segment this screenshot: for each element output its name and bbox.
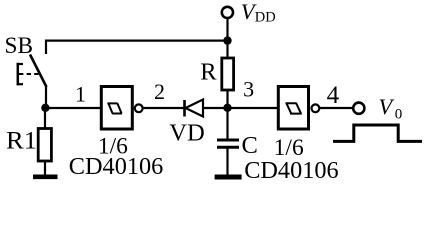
wire node to inverter U1 input xyxy=(46,107,102,109)
svg-text:CD40106: CD40106 xyxy=(69,153,164,180)
wire capacitor bottom to ground xyxy=(226,147,228,176)
wire VDD stem down to resistor R xyxy=(226,19,228,59)
ground under R1 xyxy=(33,175,58,180)
diode VD cathode bar xyxy=(183,100,186,117)
bubble U1 xyxy=(135,104,143,112)
node junction input node xyxy=(41,104,49,112)
svg-text:CD40106: CD40106 xyxy=(244,157,339,184)
wire node down to capacitor xyxy=(226,108,228,140)
switch SB pushbutton actuator xyxy=(17,63,41,86)
output terminal xyxy=(353,103,364,114)
node junction at VDD rail xyxy=(223,36,231,44)
label VDD xyxy=(241,0,276,26)
wire gate1 output to diode xyxy=(143,107,185,109)
ground under C xyxy=(215,175,242,180)
switch SB blade xyxy=(30,55,47,88)
svg-text:SB: SB xyxy=(5,33,34,59)
resistor R1 xyxy=(6,125,51,161)
wire R bottom to node xyxy=(226,90,228,108)
svg-text:0: 0 xyxy=(395,107,403,123)
waveform pulse xyxy=(333,125,422,141)
capacitor C bottom plate xyxy=(217,146,239,149)
svg-text:3: 3 xyxy=(243,76,254,101)
wire gate2 output to terminal xyxy=(319,107,353,109)
wire diode to node 3 xyxy=(203,107,278,109)
svg-text:4: 4 xyxy=(327,82,340,109)
svg-text:V: V xyxy=(379,94,395,119)
resistor R xyxy=(200,58,233,90)
svg-text:C: C xyxy=(242,132,258,159)
op-amp U2 inverter 1/6 CD40106 xyxy=(278,87,319,130)
bubble U2 xyxy=(312,104,320,112)
capacitor C top plate xyxy=(217,139,239,142)
power terminal VDD xyxy=(222,7,233,18)
wire R1 bottom to ground xyxy=(44,161,46,176)
hysteresis symbol U2 xyxy=(286,103,302,113)
svg-text:R1: R1 xyxy=(6,125,37,154)
svg-text:VD: VD xyxy=(169,120,205,147)
svg-text:R: R xyxy=(200,58,217,85)
label V0 xyxy=(379,94,403,123)
node junction at RC node xyxy=(223,104,231,112)
wire from switch top to VDD rail xyxy=(46,41,228,54)
hysteresis symbol U1 xyxy=(107,103,122,113)
svg-text:2: 2 xyxy=(154,79,165,104)
op-amp U1 inverter 1/6 CD40106 xyxy=(101,87,142,130)
svg-text:1: 1 xyxy=(75,82,86,107)
svg-text:DD: DD xyxy=(255,10,276,26)
diode VD triangle xyxy=(186,100,204,117)
wire node to R1 xyxy=(44,108,46,128)
wire switch bottom to node xyxy=(45,86,47,108)
